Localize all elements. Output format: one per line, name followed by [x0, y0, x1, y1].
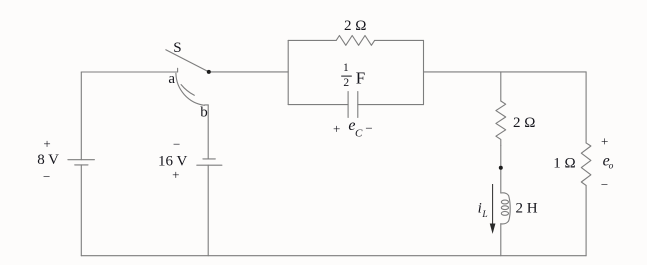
wire top-left horizontal	[81, 71, 177, 73]
wire bottom horizontal	[81, 255, 586, 257]
svg-text:i: i	[478, 201, 482, 217]
svg-text:−: −	[173, 136, 180, 151]
svg-text:a: a	[168, 71, 175, 87]
resistor 1ohm zigzag	[581, 143, 591, 186]
svg-text:8 V: 8 V	[37, 152, 59, 168]
junction dot switch pole	[207, 70, 211, 74]
svg-text:L: L	[481, 210, 487, 220]
battery 16V short plate	[203, 158, 215, 160]
wire b vertical top	[207, 105, 209, 159]
svg-text:2 Ω: 2 Ω	[513, 115, 535, 131]
wire right vertical lower	[585, 185, 587, 255]
block top edge left	[288, 39, 336, 41]
wire dot to block	[209, 71, 288, 73]
block left edge	[287, 40, 289, 104]
node b contact tick	[205, 104, 209, 106]
capacitor left plate	[347, 92, 349, 118]
svg-text:+: +	[43, 136, 50, 151]
svg-text:b: b	[200, 104, 208, 120]
node a contact tick	[177, 68, 179, 72]
svg-text:2 H: 2 H	[516, 201, 538, 217]
switch S blade	[166, 50, 209, 72]
battery 8V short plate	[75, 164, 88, 166]
block top edge right	[375, 39, 424, 41]
block right edge	[423, 40, 425, 104]
junction dot node between 2ohm and 2H	[499, 166, 503, 170]
svg-text:2: 2	[343, 77, 349, 89]
resistor 2ohm top zigzag	[336, 36, 374, 46]
current arrow iL	[490, 184, 494, 232]
svg-text:1: 1	[343, 62, 349, 74]
block bottom edge left	[288, 104, 348, 106]
wire right branch upper	[500, 72, 502, 101]
battery 8V long plate	[68, 159, 95, 161]
wire left vertical top	[80, 72, 82, 160]
svg-text:C: C	[355, 127, 363, 139]
inductor 2H coil	[501, 193, 510, 224]
resistor 2ohm right zigzag	[496, 101, 506, 145]
wire left vertical bottom	[80, 165, 82, 256]
svg-text:S: S	[173, 40, 181, 56]
switch throw arc a-b	[176, 73, 205, 105]
svg-text:−: −	[365, 121, 372, 136]
svg-text:F: F	[356, 68, 365, 87]
wire coil to bottom	[500, 224, 502, 256]
block bottom edge right	[358, 104, 424, 106]
svg-text:−: −	[601, 177, 608, 192]
battery 16V long plate	[197, 164, 222, 166]
svg-text:2 Ω: 2 Ω	[344, 18, 366, 34]
svg-text:1 Ω: 1 Ω	[553, 155, 575, 171]
capacitor right plate	[357, 92, 359, 118]
wire dot to coil	[500, 168, 502, 193]
switch inner arc	[181, 85, 194, 96]
svg-text:o: o	[609, 161, 614, 171]
wire right vertical upper	[585, 72, 587, 143]
wire b vertical bottom	[207, 165, 209, 256]
svg-text:+: +	[601, 134, 608, 149]
svg-text:+: +	[333, 121, 340, 136]
svg-text:−: −	[43, 169, 50, 184]
svg-text:+: +	[172, 167, 179, 182]
wire block to right corner	[424, 71, 587, 73]
wire zigzag to dot	[500, 145, 502, 167]
